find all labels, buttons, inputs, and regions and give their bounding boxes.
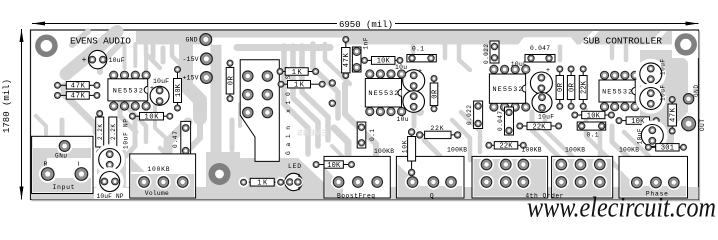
svg-text:10uF NP: 10uF NP <box>123 119 130 149</box>
mounting hole bottom-center-left <box>209 163 231 185</box>
capacitor C13 10uF <box>532 93 554 121</box>
svg-text:+: + <box>82 56 87 65</box>
resistor R7 0R vertical <box>226 60 235 102</box>
svg-text:LED: LED <box>288 163 301 170</box>
svg-text:10K: 10K <box>175 83 183 97</box>
op-amp U2 NE5532 <box>365 70 405 116</box>
capacitor C17 10uF a <box>638 59 667 87</box>
capacitor C14 0.022 lower <box>466 101 483 129</box>
label 10uF NP <box>97 193 124 200</box>
wire <box>72 32 88 46</box>
svg-text:0.047: 0.047 <box>497 111 504 131</box>
svg-text:100KB: 100KB <box>522 147 542 154</box>
clearance bottom texts <box>94 188 130 199</box>
svg-text:0.1: 0.1 <box>369 129 376 141</box>
svg-text:NE5532: NE5532 <box>602 88 632 96</box>
wire <box>133 44 137 66</box>
wire <box>123 44 127 68</box>
svg-text:1nF: 1nF <box>362 37 369 49</box>
svg-text:1780 (mil): 1780 (mil) <box>2 79 12 133</box>
label 100KB q <box>447 147 467 154</box>
wire <box>612 126 640 180</box>
wire <box>161 48 166 62</box>
svg-text:-15V: -15V <box>183 56 199 63</box>
resistor R11 10K <box>313 161 354 170</box>
wire <box>151 44 156 58</box>
svg-text:0R: 0R <box>431 89 439 99</box>
wire <box>100 44 120 72</box>
capacitor C12 10uF <box>530 67 552 94</box>
svg-text:0.1: 0.1 <box>412 46 424 53</box>
wire <box>120 96 136 132</box>
resistor R18 0R vertical b <box>567 66 576 109</box>
wire <box>624 44 629 60</box>
svg-text:0R: 0R <box>569 82 577 92</box>
wire <box>313 44 338 118</box>
svg-text:0.1: 0.1 <box>587 132 599 139</box>
wire <box>56 142 66 160</box>
svg-text:10uF: 10uF <box>660 85 667 101</box>
label 10uF NP vertical <box>123 119 130 149</box>
svg-text:47K: 47K <box>343 52 351 67</box>
wire <box>492 66 497 92</box>
svg-text:NE5532: NE5532 <box>368 90 398 98</box>
capacitor C11 0.047 top <box>525 45 555 62</box>
label 100KB 4th b <box>565 147 585 154</box>
svg-text:100KB: 100KB <box>565 147 585 154</box>
resistor R3 10K vertical <box>174 67 183 112</box>
label 10uF ic3 <box>511 61 527 68</box>
watermark www.elecircuit.com <box>527 193 716 224</box>
resistor R17 0R vertical a <box>556 66 565 109</box>
LED D1 <box>285 163 303 191</box>
svg-text:0.47: 0.47 <box>172 131 179 148</box>
svg-text:10uF: 10uF <box>109 57 125 64</box>
clearance mount hole TR <box>672 31 699 58</box>
wire <box>66 32 117 75</box>
mounting hole top-right <box>675 33 697 55</box>
wire <box>600 132 618 168</box>
wire <box>545 120 572 174</box>
resistor R12 47K vertical <box>342 37 352 79</box>
wire <box>93 126 100 132</box>
wire <box>459 44 470 70</box>
label 100KB phase <box>619 147 639 154</box>
capacitor C2 10uF <box>150 78 169 105</box>
svg-text:10K: 10K <box>145 114 160 122</box>
svg-text:GND: GND <box>186 37 198 44</box>
copper watermark EVENS (mirrored) <box>297 128 327 139</box>
resistor R16 22K <box>417 125 461 139</box>
resistor R4 10K <box>129 112 172 121</box>
svg-text:10uF: 10uF <box>538 114 554 121</box>
resistor R22 10K d <box>572 111 615 120</box>
svg-text:+: + <box>418 68 422 76</box>
svg-text:100KB: 100KB <box>148 166 170 173</box>
capacitor C8 10u <box>395 64 425 92</box>
wire <box>586 110 600 170</box>
resistor R8 1K <box>277 68 319 77</box>
svg-text:10uF: 10uF <box>637 128 644 144</box>
wire <box>424 140 440 172</box>
wire <box>406 98 420 112</box>
svg-text:100KB: 100KB <box>374 148 394 155</box>
svg-text:+: + <box>546 67 550 75</box>
svg-text:47K: 47K <box>71 83 86 91</box>
wire <box>146 44 160 68</box>
wire <box>484 44 489 52</box>
capacitor C19 10uF c <box>637 122 666 148</box>
PCB board outline <box>31 30 700 201</box>
wire <box>411 44 416 52</box>
svg-text:BoostFreq: BoostFreq <box>337 192 375 199</box>
wire <box>325 44 350 84</box>
svg-text:100KB: 100KB <box>619 147 639 154</box>
capacitor C7 0.1 <box>407 46 436 62</box>
svg-text:EVENS: EVENS <box>297 128 327 139</box>
wire <box>532 112 560 176</box>
capacitor C10 0.022 upper <box>483 41 499 64</box>
wire <box>160 148 174 162</box>
wire <box>64 86 96 126</box>
svg-text:6950 (mil): 6950 (mil) <box>339 20 393 30</box>
wire <box>237 44 330 51</box>
wire <box>284 46 308 154</box>
dimension arrow vertical 1780 mil <box>2 29 24 200</box>
svg-text:10uF NP: 10uF NP <box>97 193 124 200</box>
resistor R9 1K <box>278 80 325 89</box>
wire <box>168 122 188 156</box>
svg-text:Volume: Volume <box>145 190 169 197</box>
resistor R13 10K <box>362 57 403 66</box>
op-amp U1 NE5532 <box>108 71 150 110</box>
svg-text:SUB CONTROLLER: SUB CONTROLLER <box>583 36 662 47</box>
resistor R19 22K vertical <box>579 66 588 109</box>
resistor R23 10K e <box>616 117 659 126</box>
pad GND right <box>683 85 699 104</box>
resistor R24 47K vertical b <box>668 97 678 135</box>
wire <box>345 84 376 170</box>
pad -15V <box>183 53 213 65</box>
capacitor C6 1nF <box>352 37 369 72</box>
svg-text:Q: Q <box>430 192 434 199</box>
resistor R5 2.2K vertical <box>96 111 104 156</box>
wire <box>610 44 615 58</box>
wire <box>122 118 135 160</box>
switch SW1 gain x10 <box>240 60 292 162</box>
svg-text:EVENS AUDIO: EVENS AUDIO <box>70 36 131 47</box>
potentiometer Volume 100KB <box>130 154 196 198</box>
potentiometer 4thOrder gang1 <box>472 156 548 198</box>
svg-text:0.022: 0.022 <box>466 105 473 125</box>
wire <box>452 120 470 160</box>
mounting hole top-left <box>35 35 58 58</box>
svg-text:Input: Input <box>53 184 75 191</box>
svg-text:0R: 0R <box>227 75 235 85</box>
svg-text:1K: 1K <box>257 180 268 188</box>
wire <box>238 104 242 126</box>
label 100KB boostfreq <box>374 148 394 155</box>
wire <box>144 46 148 70</box>
svg-text:0.022: 0.022 <box>483 44 490 64</box>
op-amp U4 NE5532 <box>599 71 639 111</box>
svg-text:1K: 1K <box>292 69 303 77</box>
connector J1 input <box>32 136 93 193</box>
wire <box>230 120 235 150</box>
wire <box>186 44 200 118</box>
wire <box>293 46 318 146</box>
wire <box>172 46 186 70</box>
capacitor C3 10uF NP <box>97 146 123 172</box>
svg-text:10u: 10u <box>397 116 409 123</box>
copper pour region <box>97 150 126 196</box>
capacitor C15 0.047 lower <box>497 107 514 135</box>
resistor 47K b <box>55 92 100 101</box>
potentiometer Q 100KB <box>396 156 464 199</box>
svg-text:1K: 1K <box>294 82 305 90</box>
band clearance notch <box>212 38 344 45</box>
svg-text:10uF: 10uF <box>153 78 169 85</box>
wire <box>302 46 328 140</box>
potentiometer Phase 100KB <box>619 156 688 198</box>
resistor R21 22K c <box>486 142 526 151</box>
wire <box>686 118 690 130</box>
band clearance notch b <box>518 37 577 45</box>
wire <box>128 88 146 142</box>
svg-text:NE5532: NE5532 <box>493 86 523 94</box>
svg-text:301: 301 <box>661 145 674 153</box>
title SUB CONTROLLER <box>583 36 662 47</box>
svg-text:NE5532: NE5532 <box>113 87 143 95</box>
svg-text:OUT: OUT <box>699 119 706 131</box>
resistor R20 22K b <box>517 122 562 131</box>
svg-text:2.2K: 2.2K <box>97 124 104 140</box>
silk clearance top-right diagonal <box>580 31 667 45</box>
dimension arrow horizontal 6950 mil <box>32 20 699 30</box>
ground band bottom <box>32 187 699 200</box>
wire <box>60 120 65 142</box>
node via d <box>329 100 335 106</box>
pad OUT right <box>682 117 706 131</box>
capacitor C18 10uF b <box>638 85 667 112</box>
wire <box>624 132 650 176</box>
svg-text:0.047: 0.047 <box>530 45 550 52</box>
svg-text:22K: 22K <box>533 123 547 131</box>
wire <box>36 116 46 134</box>
capacitor C20 0.1 vertical <box>357 122 376 148</box>
copper pour region <box>206 152 332 199</box>
wire <box>155 106 168 158</box>
node via c <box>329 80 335 86</box>
capacitor C16 0.1 b <box>577 122 606 139</box>
wire <box>188 118 200 150</box>
wire <box>334 128 348 158</box>
svg-text:10K: 10K <box>377 58 391 66</box>
svg-text:2.2K: 2.2K <box>110 124 117 140</box>
capacitor C1 10uF <box>82 50 125 68</box>
power rail band top <box>136 31 699 45</box>
capacitor C9 10u <box>397 91 425 123</box>
resistor R25 301 <box>645 144 686 153</box>
svg-text:47K: 47K <box>670 107 678 122</box>
resistor 47K a <box>55 82 100 91</box>
svg-text:10K: 10K <box>402 140 409 153</box>
clearance mount hole TL <box>33 31 60 59</box>
svg-text:10K: 10K <box>327 162 341 170</box>
wire <box>332 146 342 156</box>
resistor R15 10K vertical <box>402 129 416 176</box>
copper pour region <box>640 50 688 148</box>
svg-text:100KB: 100KB <box>447 147 467 154</box>
wire <box>461 112 480 152</box>
svg-text:22K: 22K <box>500 143 514 151</box>
wire <box>412 112 417 126</box>
op-amp U3 NE5532 <box>489 65 530 111</box>
potentiometer BoostFreq 100KB <box>324 156 390 199</box>
svg-text:GND: GND <box>693 85 700 97</box>
svg-text:10K: 10K <box>587 112 601 120</box>
wire <box>443 44 448 58</box>
capacitor C5 0.47 <box>172 121 191 157</box>
wire <box>558 44 563 60</box>
svg-text:www.elecircuit.com: www.elecircuit.com <box>527 193 716 222</box>
capacitor C4 10uF NP <box>98 169 122 193</box>
svg-text:47K: 47K <box>71 93 86 101</box>
svg-text:+15V: +15V <box>183 75 199 82</box>
resistor R10 1K <box>238 177 285 188</box>
svg-text:22K: 22K <box>581 80 589 94</box>
pad GND top <box>186 34 212 46</box>
pad +15V <box>183 72 213 84</box>
svg-text:10uF: 10uF <box>660 59 667 75</box>
resistor R14 0R vertical <box>430 76 439 112</box>
title EVENS AUDIO <box>70 36 131 47</box>
resistor R6 2.2K vertical <box>109 117 117 147</box>
label 100KB 4th a <box>522 147 542 154</box>
wire <box>211 44 222 162</box>
svg-text:0R: 0R <box>557 82 565 92</box>
potentiometer 4thOrder gang2 <box>525 156 612 199</box>
